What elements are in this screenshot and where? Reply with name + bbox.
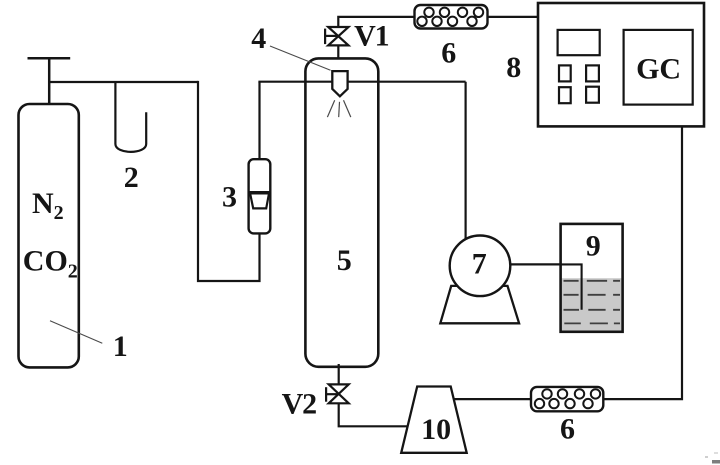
GC button row 1 right — [586, 65, 599, 81]
svg-text:CO2: CO2 — [23, 245, 78, 283]
GC inner module box — [624, 30, 693, 105]
filter 6 top — [415, 5, 488, 29]
wire: V1 to column top — [337, 45, 339, 58]
tank 9 vessel — [561, 224, 623, 332]
column 5 — [305, 58, 378, 366]
flowmeter 3 — [249, 159, 271, 233]
wire: V1 up and over to filter 6 — [338, 17, 414, 27]
svg-text:3: 3 — [222, 181, 237, 214]
wire: filter 6 to GC — [488, 16, 539, 18]
GC button row 2 right — [586, 87, 599, 103]
svg-text:V2: V2 — [282, 387, 316, 420]
svg-text:7: 7 — [472, 247, 487, 280]
GC display screen — [558, 30, 600, 55]
pump base stand — [440, 286, 519, 323]
valve V1 — [325, 27, 348, 45]
tank 9 liquid hatch dashes — [564, 281, 621, 324]
svg-text:6: 6 — [441, 37, 456, 70]
wire: collector 10 to bottom filter 6 — [454, 398, 531, 400]
GC button row 1 left — [559, 65, 571, 81]
svg-text:N2: N2 — [32, 187, 64, 224]
valve V2 — [326, 384, 349, 403]
wire: V2 to collector 10 — [339, 403, 409, 426]
leader line for label 1 — [50, 321, 102, 344]
wire: GC outlet down to bottom filter line — [603, 126, 682, 399]
cylinder valve handle — [28, 58, 71, 104]
svg-text:2: 2 — [124, 161, 139, 194]
GC unit 8 outer box — [538, 3, 704, 126]
wire: cylinder valve outlet header — [49, 81, 198, 83]
wire: column bottom to V2 — [338, 364, 340, 384]
wire: downcomer to flowmeter inlet — [198, 81, 260, 281]
leader line for label 4 — [270, 46, 331, 70]
wire: spray header through column — [258, 81, 465, 83]
spray nozzle 4 — [332, 71, 347, 96]
svg-text:1: 1 — [113, 330, 128, 363]
svg-text:V1: V1 — [354, 19, 388, 52]
svg-text:5: 5 — [337, 244, 352, 277]
svg-text:6: 6 — [560, 412, 575, 445]
svg-text:8: 8 — [506, 51, 521, 84]
bubbler trap 2 — [115, 83, 146, 152]
svg-text:10: 10 — [421, 413, 451, 446]
collector 10 — [401, 387, 467, 453]
svg-text:9: 9 — [586, 230, 601, 263]
tank 9 liquid — [562, 278, 622, 330]
filter 6 bottom — [531, 387, 603, 411]
pump 7 — [450, 235, 511, 296]
nozzle spray lines — [327, 100, 350, 117]
corner scan smudge — [705, 452, 720, 464]
svg-text:GC: GC — [636, 52, 681, 85]
gas cylinder 1 — [19, 104, 79, 367]
wire: pump outlet to tank dip tube — [510, 263, 560, 265]
wire: flowmeter outlet riser — [258, 82, 260, 160]
tank 9 dip tube — [560, 264, 582, 309]
svg-text:4: 4 — [251, 22, 266, 55]
GC button row 2 left — [559, 87, 571, 103]
wire: header down to pump inlet — [465, 82, 467, 240]
